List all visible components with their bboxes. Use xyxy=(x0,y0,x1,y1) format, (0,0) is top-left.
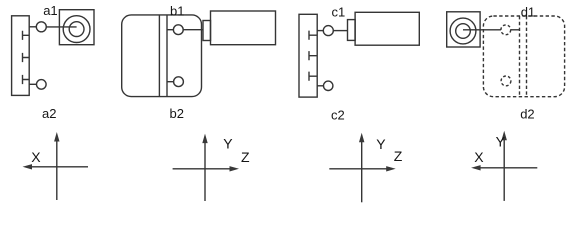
link plate-to-a2 xyxy=(29,83,36,85)
svg-text:Z: Z xyxy=(394,148,403,164)
link partition-to-b2 xyxy=(167,81,174,83)
link partition-to-b1 xyxy=(167,29,173,31)
svg-text:Y: Y xyxy=(223,135,233,151)
ghost partition line d left xyxy=(519,16,521,97)
link plate-to-a1 xyxy=(29,26,36,28)
joint d2 (dashed) xyxy=(501,76,511,86)
partition line b left xyxy=(158,15,160,97)
svg-text:X: X xyxy=(474,149,484,165)
tool inner ring d xyxy=(456,24,471,39)
link a1-to-tool xyxy=(46,26,76,28)
link b1-to-motor xyxy=(183,29,203,31)
ghost housing d (dashed) xyxy=(483,16,564,97)
contact marks on plate a xyxy=(23,31,30,84)
partition line b right xyxy=(166,15,168,97)
tool outer ring a xyxy=(63,16,90,43)
svg-text:b1: b1 xyxy=(170,4,184,19)
svg-text:d1: d1 xyxy=(521,4,535,19)
axes2 vertical line xyxy=(204,141,206,201)
svg-text:X: X xyxy=(31,149,41,165)
link c1-to-motor xyxy=(333,30,347,32)
ghost partition line d right xyxy=(526,16,528,97)
joint d1 (dashed) xyxy=(501,25,511,35)
motor flange c xyxy=(348,20,356,41)
svg-text:d2: d2 xyxy=(520,107,534,122)
link tool-to-d1 xyxy=(463,29,501,31)
link plate-to-c1 xyxy=(317,30,323,32)
frame plate a xyxy=(12,16,30,96)
motor body b xyxy=(211,11,276,45)
axes1 up arrowhead xyxy=(54,132,59,142)
axes3 vertical line xyxy=(361,140,363,203)
svg-text:Z: Z xyxy=(241,149,250,165)
axes2 up arrowhead xyxy=(202,134,207,144)
body housing b xyxy=(122,15,202,97)
svg-text:c2: c2 xyxy=(331,107,345,122)
link plate-to-c2 xyxy=(317,85,323,87)
axes2 right arrowhead xyxy=(230,166,240,171)
axes3 right arrowhead xyxy=(386,166,396,171)
joint b1 xyxy=(173,25,183,35)
svg-text:Y: Y xyxy=(376,136,386,152)
axes4 horizontal line xyxy=(477,167,537,169)
motor body c xyxy=(355,12,419,45)
link d1-to-partition xyxy=(511,29,520,31)
svg-text:b2: b2 xyxy=(170,106,184,121)
svg-text:a2: a2 xyxy=(42,106,56,121)
tool inner ring a xyxy=(69,22,84,37)
axes1 horizontal line xyxy=(29,166,88,168)
joint a2 xyxy=(37,80,47,90)
contact marks on plate c xyxy=(309,31,317,81)
axes4 vertical line xyxy=(503,138,505,201)
tool outer ring d xyxy=(450,18,476,44)
svg-text:a1: a1 xyxy=(43,3,57,18)
axes3 horizontal line xyxy=(329,168,389,170)
svg-text:c1: c1 xyxy=(332,4,346,19)
axes4 left arrowhead xyxy=(471,165,481,170)
axes4 up arrowhead xyxy=(502,131,507,141)
joint b2 xyxy=(174,77,184,87)
axes1 left arrowhead xyxy=(23,164,33,169)
tool housing d xyxy=(447,12,480,47)
frame plate c xyxy=(299,14,317,97)
joint a1 xyxy=(36,22,46,32)
tool housing a xyxy=(59,10,94,45)
joint c2 xyxy=(324,81,333,90)
motor flange b xyxy=(203,21,211,41)
joint c1 xyxy=(323,26,333,36)
axes2 horizontal line xyxy=(173,168,233,170)
axes1 vertical line xyxy=(56,140,58,200)
svg-text:Y: Y xyxy=(496,133,506,149)
axes3 up arrowhead xyxy=(359,133,364,143)
